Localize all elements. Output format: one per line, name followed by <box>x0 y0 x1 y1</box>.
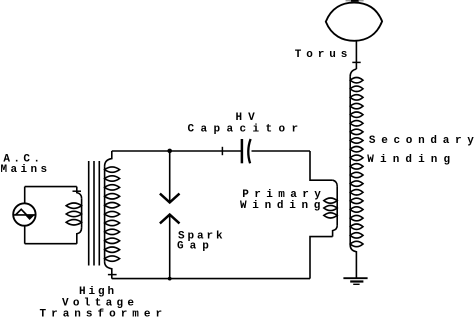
svg-text:Gap: Gap <box>177 241 215 253</box>
wire: AC loop bottom <box>25 243 77 245</box>
transformer core (3 lines) <box>89 161 100 266</box>
transformer secondary coil (HV side) <box>105 151 120 279</box>
ground <box>343 278 367 284</box>
tick: connection mark on top bus <box>221 147 223 155</box>
svg-text:Capacitor: Capacitor <box>188 124 305 136</box>
spark gap lower electrode (up arrow) <box>160 215 180 279</box>
tick: mark on AC coil lead <box>73 190 82 192</box>
wire: bottom bus <box>112 278 310 280</box>
svg-text:Mains: Mains <box>1 164 51 176</box>
wire: junction to capacitor left plate <box>170 150 242 152</box>
svg-text:Winding: Winding <box>367 154 456 166</box>
svg-text:HV: HV <box>236 112 261 124</box>
primary winding coil <box>324 180 337 236</box>
svg-text:High: High <box>79 286 117 298</box>
wire: AC loop left (above source) <box>24 187 26 204</box>
node: junction dot top of spark gap <box>167 149 172 154</box>
svg-text:Winding: Winding <box>240 200 326 212</box>
node: junction blob bottom of spark gap <box>168 277 172 281</box>
tick: mark on torus stem <box>352 61 360 63</box>
torus <box>326 3 382 41</box>
wire: capacitor right plate to primary winding corner <box>252 150 311 152</box>
wire: primary coil exit to bottom bus <box>310 237 333 279</box>
secondary winding coil <box>350 69 363 278</box>
capacitor HV (straight + curved plate) <box>242 139 251 163</box>
wire: AC loop top <box>25 186 77 188</box>
svg-text:Secondary: Secondary <box>369 135 474 147</box>
tick: mark on transformer bottom lead <box>108 274 117 276</box>
wire: top bus from HV transformer to junction <box>112 150 170 152</box>
torus top clipped mark <box>351 0 359 2</box>
svg-text:Transformer: Transformer <box>40 309 168 319</box>
spark gap upper electrode (down arrow) <box>160 151 180 202</box>
svg-text:Torus: Torus <box>295 49 353 61</box>
wire: torus stem <box>355 41 357 70</box>
transformer primary coil (AC side) <box>66 187 81 244</box>
wire: right side down to primary coil <box>310 151 333 180</box>
AC source symbol <box>13 203 35 225</box>
wire: AC loop left (below source) <box>24 226 26 244</box>
svg-text:Voltage: Voltage <box>62 297 138 309</box>
